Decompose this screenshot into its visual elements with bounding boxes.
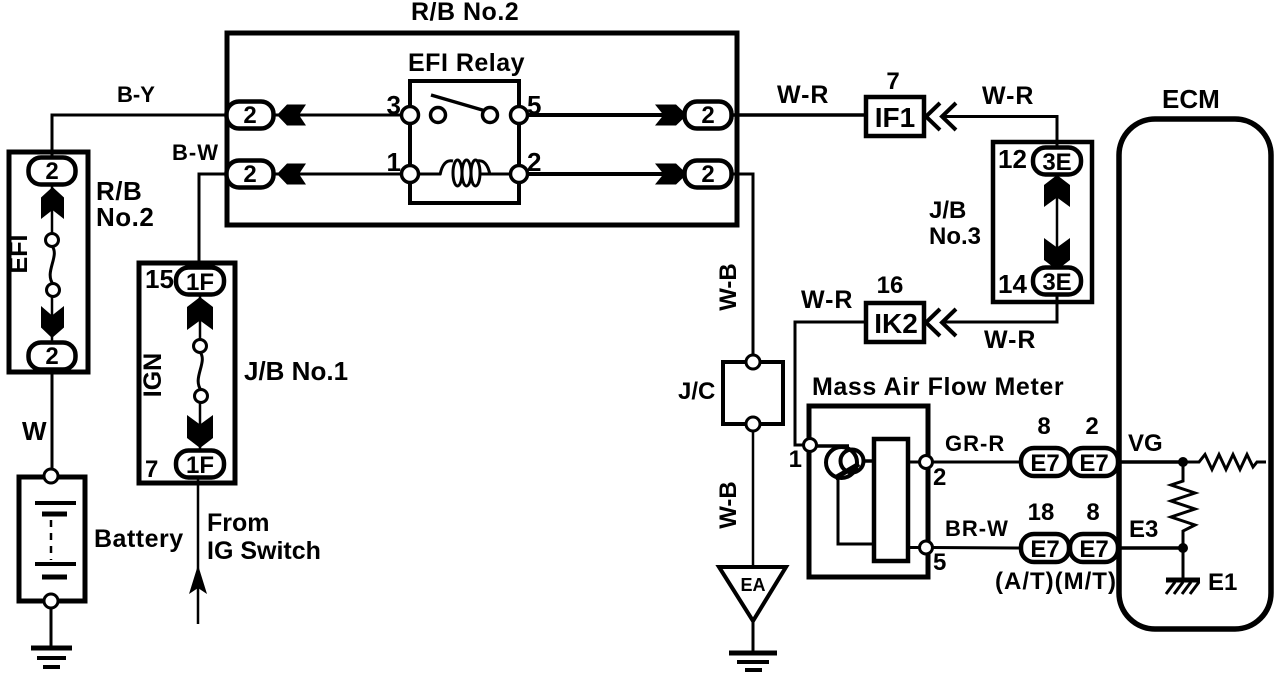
resistor (horizontal from VG): [1183, 455, 1266, 470]
svg-text:5: 5: [527, 90, 541, 120]
resistor (vertical VG to E3): [1171, 462, 1195, 548]
svg-text:7: 7: [145, 456, 158, 483]
svg-text:2: 2: [701, 102, 714, 129]
connector 2 (EFI fuse top): [29, 158, 76, 186]
label E3: [1129, 516, 1158, 543]
arrow down (EFI fuse): [41, 306, 64, 338]
connector E7 (row 1 right): [1070, 448, 1118, 477]
pin 5 (mass air flow meter): [908, 541, 946, 576]
wire relay row bottom (inside R/B No.2): [273, 173, 685, 176]
svg-text:2: 2: [933, 464, 946, 491]
arrow chevrons (after IK2): [926, 309, 956, 336]
wire (battery to ground): [50, 607, 53, 648]
label W-R (left of IF1): [777, 81, 829, 109]
svg-text:IG Switch: IG Switch: [207, 537, 321, 565]
label J/B No.1: [244, 356, 348, 386]
junction box J/B No.1: [139, 263, 235, 483]
svg-text:GR-R: GR-R: [945, 431, 1005, 456]
label 7 (above IF1): [886, 68, 899, 95]
svg-text:W-R: W-R: [984, 326, 1036, 354]
wire relay row top (inside R/B No.2): [273, 114, 685, 117]
ECM box: [1119, 119, 1271, 629]
label ECM: [1162, 84, 1220, 114]
label BR-W: [945, 516, 1009, 541]
label W-R (below J/B No.3): [984, 326, 1036, 354]
svg-text:W-B: W-B: [715, 263, 742, 311]
wire W-B (connector 2 to J/C): [731, 174, 753, 356]
coil (relay winding): [418, 160, 511, 186]
svg-text:W: W: [22, 416, 47, 446]
switch contact (relay blade): [431, 95, 498, 123]
svg-text:16: 16: [877, 272, 904, 299]
svg-text:BR-W: BR-W: [945, 516, 1009, 541]
wire (J/B No.3 internal): [1056, 175, 1059, 268]
svg-text:E3: E3: [1129, 516, 1158, 543]
pin 5 (relay): [511, 90, 542, 124]
svg-text:7: 7: [886, 68, 899, 95]
svg-text:2: 2: [45, 158, 58, 185]
pin 3 (relay): [387, 90, 419, 124]
svg-text:5: 5: [933, 549, 946, 576]
label R/B No.2 (left box): [96, 176, 154, 232]
svg-text:W-B: W-B: [715, 481, 742, 529]
svg-text:J/C: J/C: [678, 378, 715, 405]
svg-text:J/B: J/B: [929, 197, 966, 224]
hot wire sensor (overlapping circles): [816, 446, 874, 544]
pin 7 (J/B No.1): [145, 456, 158, 483]
connector 1F (bottom): [176, 451, 224, 480]
svg-text:8: 8: [1037, 413, 1050, 440]
connector 3E (bottom): [1033, 268, 1081, 297]
wire W-R (IK2 to mass air flow meter pin 1): [795, 322, 866, 445]
arrow down (J/B No.3): [1044, 238, 1070, 270]
wire B-Y (horizontal + drop to EFI fuse): [52, 115, 227, 158]
pin 8 (label above E7 row 1): [1037, 413, 1050, 440]
label 16 (above IK2): [877, 272, 904, 299]
ground (battery): [31, 648, 72, 667]
svg-text:2: 2: [243, 161, 256, 188]
svg-text:2: 2: [45, 343, 58, 370]
arrow left (bottom row): [277, 164, 306, 185]
svg-text:E7: E7: [1030, 536, 1059, 563]
connector 3E (top): [1033, 148, 1081, 177]
svg-text:2: 2: [527, 147, 541, 177]
fuse EFI: [5, 234, 60, 297]
wire (EFI fuse internal): [51, 184, 54, 343]
svg-text:2: 2: [243, 102, 256, 129]
label From IG Switch: [207, 509, 321, 565]
svg-text:2: 2: [1085, 413, 1098, 440]
connector 1F (top): [176, 268, 224, 297]
svg-text:3E: 3E: [1042, 269, 1071, 296]
pin 8 (label above E7 row 2): [1086, 499, 1099, 526]
arrow right (bottom row): [655, 164, 687, 185]
wire GR-R (pin 2 to connector E7): [932, 461, 1021, 464]
mass air flow meter box: [809, 406, 928, 577]
svg-text:W-R: W-R: [982, 82, 1034, 110]
svg-text:14: 14: [998, 269, 1027, 299]
svg-text:Mass Air Flow Meter: Mass Air Flow Meter: [812, 373, 1064, 401]
pin 2 (label above E7 row 1): [1085, 413, 1098, 440]
svg-text:EA: EA: [740, 575, 765, 595]
wire B-W (from connector 2 down to J/B No.1): [199, 174, 227, 268]
svg-text:No.3: No.3: [929, 223, 981, 250]
label R/B No.2 (top title): [411, 0, 519, 26]
label J/C: [678, 378, 715, 405]
svg-text:From: From: [207, 509, 270, 537]
svg-text:B-W: B-W: [172, 140, 219, 165]
svg-text:E1: E1: [1208, 569, 1237, 596]
label W-B (above J/C): [715, 263, 742, 311]
pin 2 (mass air flow meter): [908, 456, 946, 492]
label J/B No.3: [929, 197, 981, 250]
svg-text:1F: 1F: [186, 452, 214, 479]
svg-text:IGN: IGN: [139, 353, 167, 397]
svg-text:Battery: Battery: [94, 525, 184, 553]
svg-text:VG: VG: [1128, 430, 1163, 457]
arrow up (IGN fuse): [187, 297, 213, 330]
svg-text:18: 18: [1028, 499, 1055, 526]
pin 12 (J/B No.3): [998, 144, 1027, 174]
pin 2 (relay): [511, 147, 542, 183]
connector E7 (row 2 left): [1021, 534, 1069, 563]
svg-text:B-Y: B-Y: [117, 82, 155, 107]
svg-text:ECM: ECM: [1162, 84, 1220, 114]
shield triangle EA: [719, 567, 786, 621]
label W: [22, 416, 47, 446]
hot wire element (rectangle): [874, 439, 908, 561]
label E1: [1208, 569, 1237, 596]
label W-B (below J/C): [715, 481, 742, 529]
svg-text:(A/T)(M/T): (A/T)(M/T): [995, 568, 1117, 595]
wire W-R (J/B No.3 pin 14 to IK2): [945, 295, 1057, 322]
label Mass Air Flow Meter: [812, 373, 1064, 401]
wire from IG switch: [197, 478, 200, 624]
relay EFI Relay (label): [408, 49, 525, 77]
relay EFI Relay (box): [410, 81, 519, 203]
node E3 (junction dot): [1178, 543, 1188, 553]
svg-text:8: 8: [1086, 499, 1099, 526]
wire W (fuse to battery): [51, 370, 54, 470]
fuse IF1: [866, 97, 924, 136]
arrow up (from IG switch): [189, 565, 207, 594]
junction connector J/C: [723, 355, 783, 431]
wire W-B (J/C to EA): [752, 431, 755, 567]
svg-text:No.2: No.2: [96, 202, 154, 232]
svg-text:R/B No.2: R/B No.2: [411, 0, 519, 26]
svg-text:IK2: IK2: [874, 308, 918, 339]
label W-R (left of IK2): [801, 286, 853, 314]
ground (EA): [729, 653, 777, 670]
svg-text:E7: E7: [1079, 450, 1108, 477]
pin 15 (J/B No.1): [145, 264, 174, 294]
label W-R (right of IF1): [982, 82, 1034, 110]
fuse IK2: [866, 303, 924, 342]
label Battery: [94, 525, 184, 553]
connector E7 (row 1 left): [1021, 448, 1069, 477]
wire W-R (to J/B No.3 pin 12): [944, 117, 1057, 151]
svg-text:E7: E7: [1030, 450, 1059, 477]
wire (EA to ground): [752, 621, 755, 653]
pin 1 (relay): [387, 147, 419, 183]
wire E3 (into ECM): [1118, 546, 1183, 550]
arrow down (IGN fuse): [187, 415, 213, 448]
pin 18 (label above E7 row 2): [1028, 499, 1055, 526]
connector 2 (left bottom oval): [227, 161, 274, 189]
wire W-R (connector 2 to fuse IF1): [731, 113, 866, 117]
pin 14 (J/B No.3): [998, 269, 1027, 299]
connector 2 (right bottom oval): [685, 161, 732, 189]
wire (IGN fuse internal): [199, 294, 202, 451]
svg-text:W-R: W-R: [801, 286, 853, 314]
svg-text:J/B No.1: J/B No.1: [244, 356, 348, 386]
svg-text:12: 12: [998, 144, 1027, 174]
svg-text:IF1: IF1: [875, 102, 915, 133]
svg-text:3: 3: [387, 90, 401, 120]
arrow up (J/B No.3): [1044, 175, 1070, 207]
label B-Y: [117, 82, 155, 107]
junction box J/B No.3: [993, 142, 1092, 302]
arrow right (top row): [655, 105, 687, 126]
svg-text:EFI: EFI: [5, 235, 33, 274]
svg-text:EFI Relay: EFI Relay: [408, 49, 525, 77]
label VG: [1128, 430, 1163, 457]
label GR-R: [945, 431, 1005, 456]
battery: [19, 469, 85, 608]
svg-text:1: 1: [387, 147, 401, 177]
connector 2 (right top oval): [685, 102, 732, 130]
connector E7 (row 2 right): [1070, 534, 1118, 563]
svg-text:2: 2: [701, 161, 714, 188]
label (A/T)(M/T): [995, 568, 1117, 595]
svg-text:E7: E7: [1079, 536, 1108, 563]
arrow chevrons (after IF1): [926, 103, 956, 130]
svg-text:15: 15: [145, 264, 174, 294]
node VG (junction dot): [1178, 457, 1188, 467]
fuse IGN: [139, 340, 208, 403]
arrow left (top row): [277, 105, 306, 126]
connector 2 (left top oval): [227, 102, 274, 130]
pin 1 (mass air flow meter): [789, 439, 817, 474]
svg-text:1F: 1F: [186, 269, 214, 296]
chassis ground E1: [1166, 580, 1200, 594]
wire BR-W (pin 5 to connector E7): [932, 546, 1021, 550]
wire VG (into ECM): [1118, 460, 1183, 464]
junction box R/B No.2 (relay block outline): [227, 33, 737, 225]
svg-text:3E: 3E: [1042, 149, 1071, 176]
svg-text:W-R: W-R: [777, 81, 829, 109]
label B-W: [172, 140, 219, 165]
connector 2 (EFI fuse bottom): [29, 343, 76, 371]
wire (E3 node to chassis ground E1): [1182, 548, 1185, 580]
svg-text:1: 1: [789, 446, 802, 473]
junction box R/B No.2 EFI fuse holder (left box): [9, 152, 88, 372]
arrow up (EFI fuse): [41, 187, 64, 219]
